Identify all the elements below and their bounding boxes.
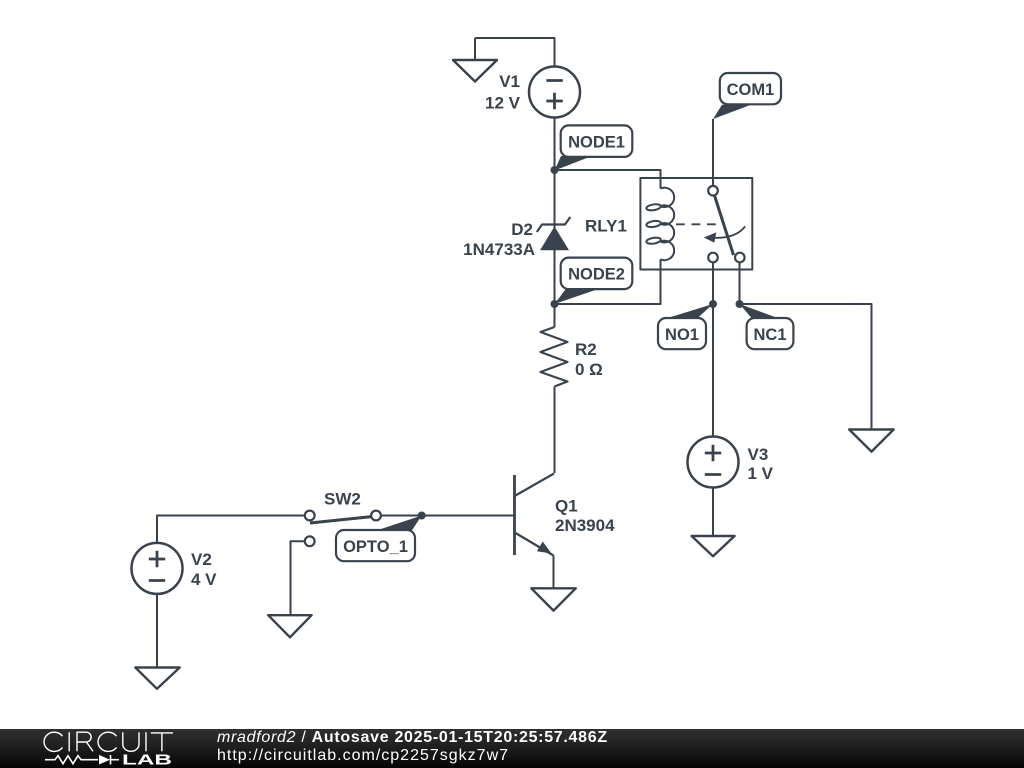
transistor Q1 [515, 474, 555, 589]
wire COM1 to relay [712, 119, 714, 186]
node NO1 [658, 300, 717, 349]
wire relay NO pin to V3 [712, 262, 714, 436]
svg-text:NO1: NO1 [665, 326, 699, 344]
ground GND3 (under V3) [692, 536, 735, 556]
pin NC [735, 253, 745, 263]
wire ground to V1 top [475, 38, 555, 66]
voltage source V1 [529, 67, 580, 118]
relay RLY1 [640, 178, 752, 270]
arrow [714, 226, 745, 238]
wire relay coil bottom to NODE2 [555, 259, 661, 304]
svg-text:OPTO_1: OPTO_1 [343, 538, 408, 556]
zener diode D2 [537, 217, 571, 250]
node NC1 [736, 300, 794, 349]
ground GND1 (top, for V1) [453, 38, 497, 82]
wire V3 to ground [712, 488, 714, 537]
dashed link [676, 223, 718, 225]
logo resistor-diode glyph [45, 755, 119, 765]
svg-text:4 V: 4 V [191, 570, 217, 589]
wire R2 to Q1 collector [554, 387, 556, 474]
svg-text:RLY1: RLY1 [585, 217, 627, 236]
ground GND4 (under Q1 emitter) [531, 588, 576, 610]
wire NODE2 to R2 [554, 304, 556, 327]
voltage source V2 [132, 543, 183, 594]
ground GND6 (under SW2) [268, 615, 311, 637]
svg-text:1 V: 1 V [748, 464, 774, 483]
node COM1 [713, 73, 781, 119]
svg-text:V1: V1 [499, 72, 520, 91]
switch SW2 [305, 511, 381, 547]
svg-text:LAB: LAB [122, 752, 172, 768]
svg-text:NC1: NC1 [753, 326, 786, 344]
svg-text:12 V: 12 V [485, 94, 521, 113]
footer bar [0, 729, 1024, 768]
wire SW2 lower throw to ground [291, 541, 306, 615]
wire V2 to ground [156, 594, 158, 668]
svg-text:2N3904: 2N3904 [555, 516, 615, 535]
svg-text:D2: D2 [511, 220, 533, 239]
pin NO [708, 253, 718, 263]
CircuitLab logo [0, 729, 200, 768]
T [151, 733, 173, 751]
svg-text:V3: V3 [748, 445, 769, 464]
pin COM [708, 186, 718, 196]
svg-text:V2: V2 [191, 550, 212, 569]
svg-text:Q1: Q1 [555, 497, 578, 516]
resistor R2 [541, 327, 568, 387]
wire NODE1 down to D2 and NODE2 [554, 170, 556, 304]
switch arm of RLY1 [715, 196, 734, 256]
coil of RLY1 [661, 188, 675, 261]
R [77, 732, 93, 751]
I [145, 732, 147, 751]
svg-text:1N4733A: 1N4733A [463, 240, 535, 259]
ground GND2 (right, for NC1) [849, 430, 894, 452]
wire V1 to NODE1 [554, 118, 556, 171]
svg-text:COM1: COM1 [727, 81, 775, 99]
voltage source V3 [688, 437, 739, 488]
svg-text:NODE2: NODE2 [568, 266, 625, 284]
C [98, 732, 116, 751]
ground GND5 (under V2) [135, 668, 179, 689]
U [123, 732, 139, 751]
node NODE2 [551, 258, 633, 308]
wire V2 to SW2 [157, 516, 305, 543]
wire relay NC pin to right ground [740, 262, 872, 430]
node NODE1 [551, 125, 633, 174]
I [68, 732, 70, 751]
svg-text:0 Ω: 0 Ω [575, 360, 603, 379]
svg-text:R2: R2 [575, 340, 597, 359]
C [44, 732, 62, 751]
wire SW2 to Q1 base [380, 515, 513, 517]
svg-text:SW2: SW2 [324, 490, 361, 509]
node OPTO_1 [336, 512, 426, 562]
svg-text:NODE1: NODE1 [568, 133, 625, 151]
wire NODE1 to relay coil [555, 170, 661, 189]
